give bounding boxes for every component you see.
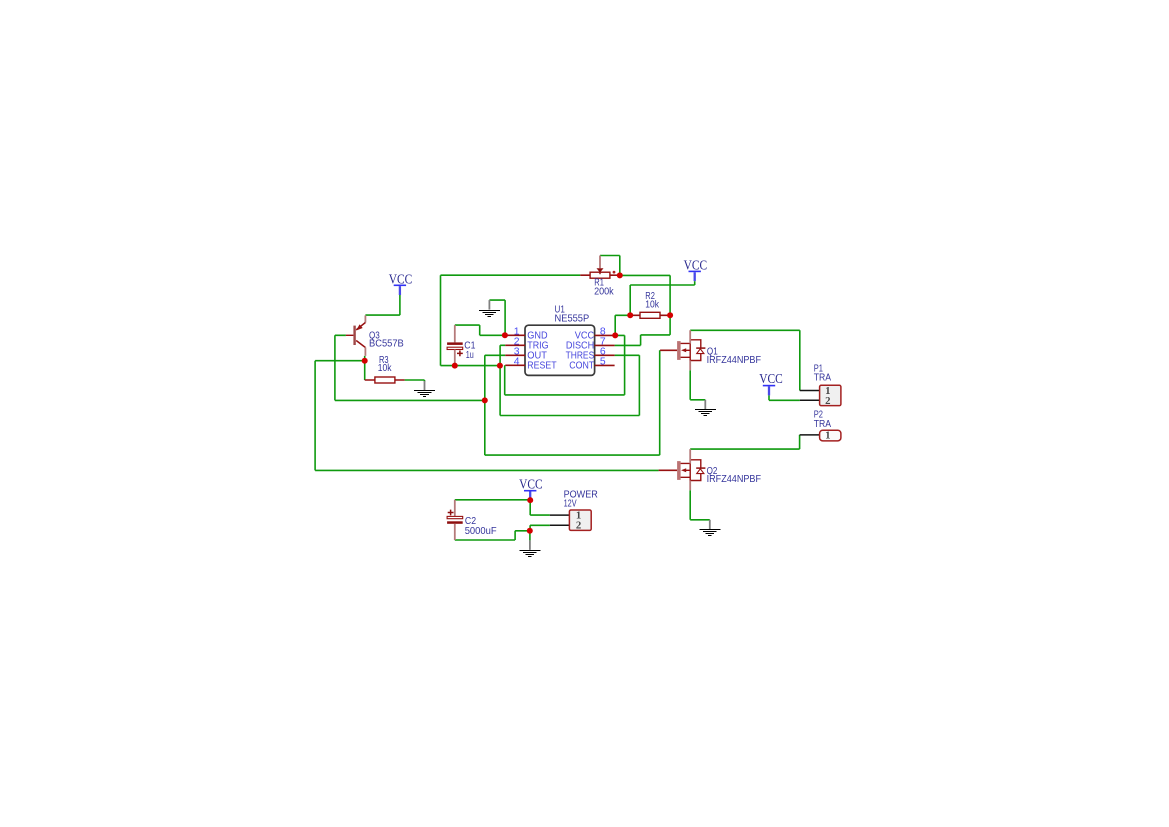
svg-text:2: 2 xyxy=(576,520,581,532)
svg-text:CONT: CONT xyxy=(569,360,594,371)
pin 3 OUT xyxy=(505,347,547,362)
wire Q2 drain to P2 xyxy=(690,435,799,449)
pin 8 VCC xyxy=(575,327,615,342)
ground GND5 at POWER xyxy=(519,540,540,557)
supply VCC1 at Q3 emitter xyxy=(389,271,413,295)
pin 6 THRES xyxy=(566,347,615,362)
ground GND4 at Q2 source xyxy=(699,520,720,536)
black stub P1 pin2 xyxy=(800,399,820,401)
wire R1 left long loop xyxy=(441,275,581,365)
junction at R2 left xyxy=(627,312,633,318)
connector P2 TRA xyxy=(814,410,841,442)
svg-text:VCC: VCC xyxy=(519,477,543,492)
pin 1 GND xyxy=(505,327,547,342)
svg-text:5: 5 xyxy=(600,357,606,368)
svg-text:IRFZ44NPBF: IRFZ44NPBF xyxy=(707,474,761,485)
supply VCC2 at P1 xyxy=(759,371,783,395)
svg-text:10k: 10k xyxy=(378,363,392,374)
junction at R1 right xyxy=(617,272,623,278)
svg-text:NE555P: NE555P xyxy=(555,314,590,325)
svg-text:BC557B: BC557B xyxy=(369,338,404,349)
wire VCC1 to Q3 emitter xyxy=(365,295,400,315)
transistor Q3 BC557B xyxy=(346,315,404,356)
junction at POWER pin2 ground xyxy=(527,528,533,534)
wire RESET to VCC net xyxy=(505,335,625,395)
wire OUT pin3 vertical and row xyxy=(485,355,506,455)
svg-text:IRFZ44NPBF: IRFZ44NPBF xyxy=(707,355,761,366)
supply VCC4 top right xyxy=(684,257,708,281)
svg-text:4: 4 xyxy=(514,357,520,368)
wire C2 bottom loop xyxy=(455,531,530,540)
svg-text:2: 2 xyxy=(825,395,830,407)
wire VCC4 to R2 left and pin8 xyxy=(615,281,695,335)
black stub P2 pin1 xyxy=(800,434,820,436)
svg-text:VCC: VCC xyxy=(759,371,783,386)
supply VCC3 at POWER xyxy=(519,477,543,500)
junction at pin 1 xyxy=(502,332,508,338)
connector P1 TRA xyxy=(814,363,841,407)
svg-text:1: 1 xyxy=(825,429,830,441)
wire R1 wiper xyxy=(600,256,620,276)
capacitor C1 1u xyxy=(447,325,476,366)
svg-text:5000uF: 5000uF xyxy=(465,526,497,537)
ground GND1 under R3 xyxy=(414,381,435,397)
junction at C1 bottom xyxy=(452,363,458,369)
wire Q1 drain to P1 pin1 xyxy=(690,330,800,390)
wire Q1 source to ground xyxy=(690,370,705,400)
pin 7 DISCH xyxy=(566,337,615,352)
svg-text:1u: 1u xyxy=(466,350,474,361)
junction at VCC3 POWER xyxy=(527,497,533,503)
wire Q3 collector to Q2 gate xyxy=(315,361,658,471)
resistor R1 200k trimmer xyxy=(580,256,620,298)
black stub P1 pin1 xyxy=(800,390,820,392)
wire POWER pin2 to junction xyxy=(530,525,550,531)
capacitor C2 5000uF xyxy=(447,500,497,540)
svg-text:RESET: RESET xyxy=(527,360,557,371)
black stub POWER pin2 xyxy=(550,524,570,526)
transistor Q1 IRFZ44NPBF xyxy=(660,330,761,370)
junction at Q3 collector xyxy=(362,358,368,364)
wire Q3 collector to R3 xyxy=(364,356,366,380)
wire Q2 source to ground xyxy=(690,490,710,520)
svg-text:VCC: VCC xyxy=(684,257,708,272)
junction TRIG net at C1 wire xyxy=(497,363,503,369)
wire R3 to ground xyxy=(405,380,425,382)
junction OUT net at base wire xyxy=(482,397,488,403)
wire TRIG vertical xyxy=(500,345,505,415)
junction at R2 right xyxy=(667,312,673,318)
svg-text:10k: 10k xyxy=(645,299,659,310)
pin 5 CONT xyxy=(569,357,614,372)
svg-text:VCC: VCC xyxy=(389,271,413,286)
junction at pin 8 xyxy=(612,332,618,338)
svg-text:TRA: TRA xyxy=(814,419,831,430)
pin 2 TRIG xyxy=(505,337,548,352)
pin 4 RESET xyxy=(505,357,557,372)
resistor R2 10k xyxy=(630,291,670,318)
svg-text:12V: 12V xyxy=(564,498,577,509)
wire OUT net to Q1 gate xyxy=(485,350,660,455)
wire Q3 base to OUT net xyxy=(335,335,485,400)
connector POWER 12V xyxy=(564,490,598,532)
wire TRIG to THRES bottom xyxy=(500,355,639,415)
wire GND2 to pin1 xyxy=(489,300,505,335)
black stub POWER pin1 xyxy=(550,514,570,516)
svg-text:TRA: TRA xyxy=(814,373,831,384)
svg-text:200k: 200k xyxy=(594,287,614,298)
resistor R3 10k xyxy=(365,355,405,383)
wire C2 top to VCC3 junction xyxy=(455,498,550,516)
ground GND2 above pin1 xyxy=(479,300,500,317)
wire R1 right to R2 right to DISCH xyxy=(615,275,671,345)
IC U1 NE555P xyxy=(525,304,595,375)
wire junction to ground5 xyxy=(529,531,531,541)
wire pin1 to C1 top xyxy=(455,325,506,335)
transistor Q2 IRFZ44NPBF xyxy=(659,449,761,490)
ground GND3 at Q1 source xyxy=(695,400,716,416)
wire VCC2 to P1 pin2 xyxy=(769,395,800,400)
